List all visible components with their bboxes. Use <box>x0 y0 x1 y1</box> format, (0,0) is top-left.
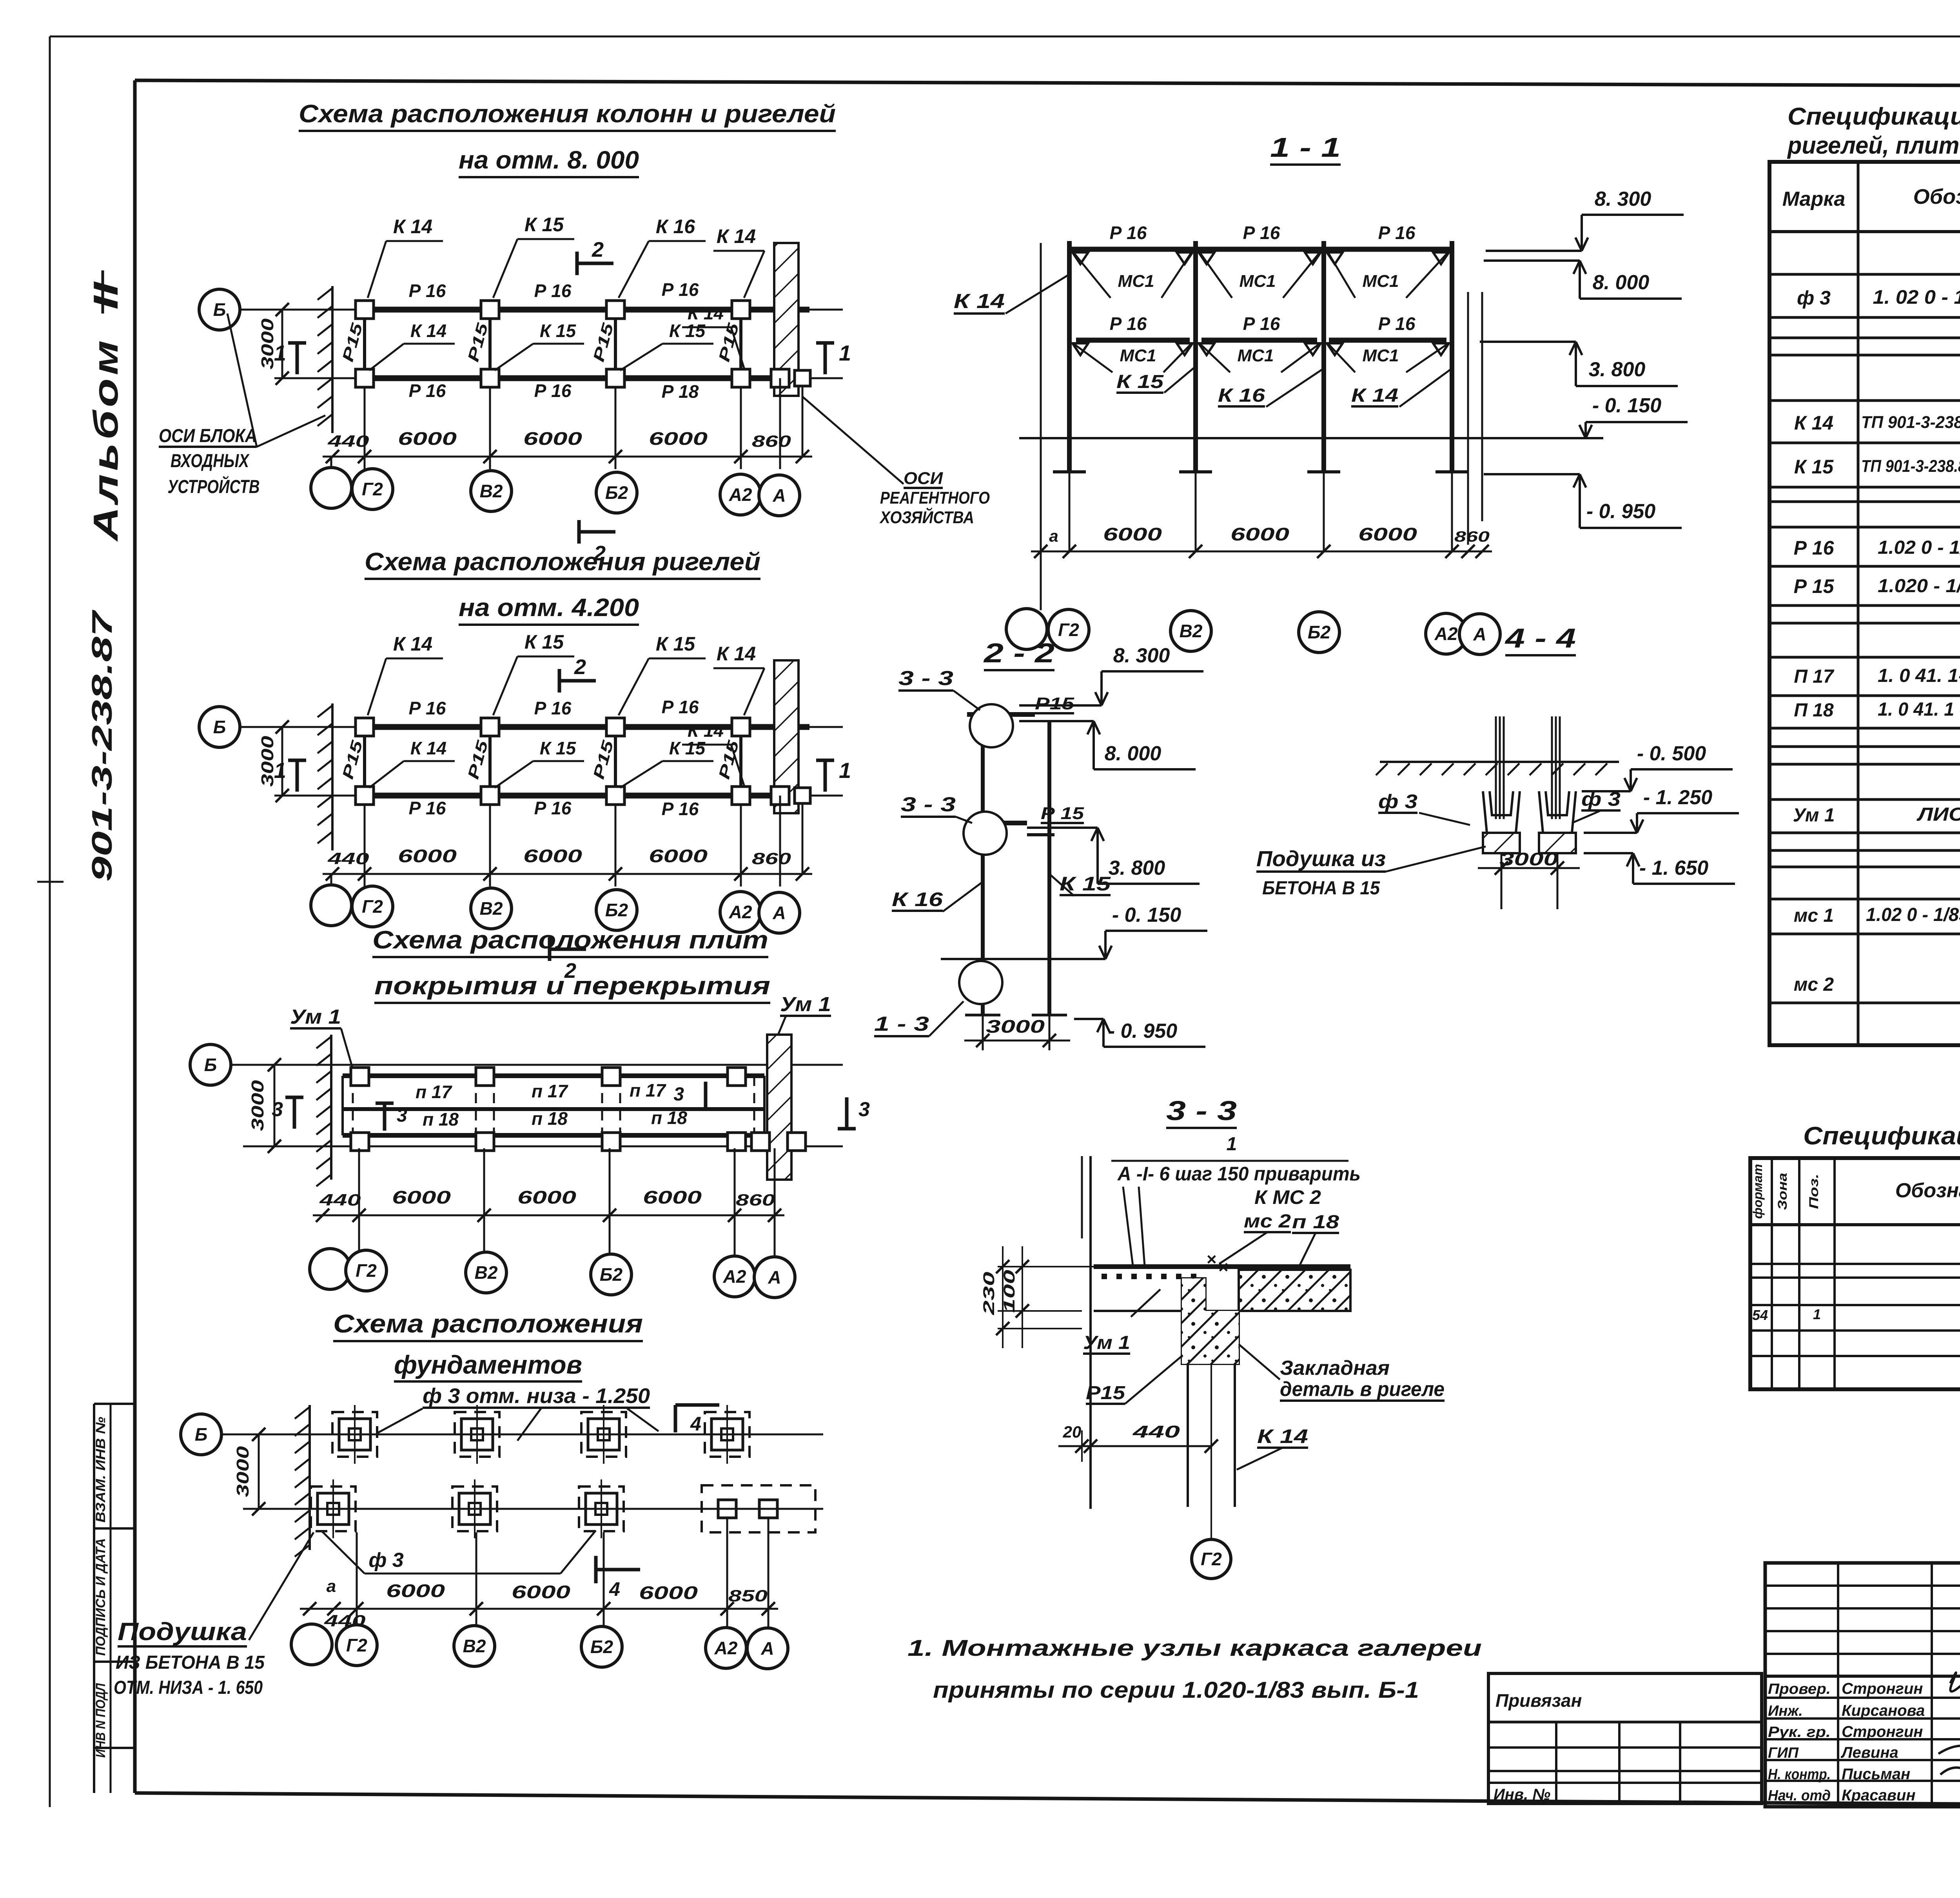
svg-text:Схема расположения ригелей: Схема расположения ригелей <box>365 547 760 576</box>
svg-text:А2: А2 <box>729 484 752 505</box>
svg-text:ф 3 отм. низа - 1.250: ф 3 отм. низа - 1.250 <box>423 1384 650 1408</box>
svg-text:МС1: МС1 <box>1363 272 1399 291</box>
axis circles bottom <box>330 457 332 469</box>
svg-text:Кирсанова: Кирсанова <box>1842 1702 1925 1719</box>
column squares and verticals <box>363 319 366 369</box>
right wall hatched scheme3 <box>767 1035 791 1180</box>
svg-text:Подушка из: Подушка из <box>1256 846 1386 871</box>
svg-text:1: 1 <box>839 758 851 783</box>
svg-text:1. 02 0 - 1/83 . 1-1 1.00.: 1. 02 0 - 1/83 . 1-1 1.00. <box>1873 286 1960 308</box>
girders R16 top row <box>374 307 480 313</box>
svg-text:УСТРОЙСТВ: УСТРОЙСТВ <box>168 476 260 497</box>
svg-text:- 0. 950: - 0. 950 <box>1108 1020 1177 1042</box>
svg-text:Р 16: Р 16 <box>1378 223 1416 243</box>
svg-text:Р15: Р15 <box>1086 1383 1126 1403</box>
svg-text:6000: 6000 <box>517 1187 577 1207</box>
svg-text:Р 16: Р 16 <box>534 281 572 301</box>
dim line scheme3 <box>313 1215 784 1216</box>
svg-text:ригелей, плит покрытия и: ригелей, плит покрытия и перекрытия, фун… <box>1787 132 1960 159</box>
svg-text:Спецификация к схемам: Спецификация к схемам расположения колон… <box>1788 103 1960 130</box>
svg-text:1.02 0 - 1/83 вып. 7- 1: 1.02 0 - 1/83 вып. 7- 1 <box>1866 905 1960 925</box>
hatched slab P18 <box>1239 1270 1350 1311</box>
fold mark left <box>37 881 64 883</box>
svg-text:ТП 901-3-238.87-КЖИ.05.0. 0. 0: ТП 901-3-238.87-КЖИ.05.0. 0. 0 <box>1861 413 1960 432</box>
column hatched 3-3 <box>1182 1278 1239 1364</box>
svg-text:6000: 6000 <box>1103 524 1162 544</box>
foundation glasses 4-4 <box>1483 791 1520 833</box>
svg-text:приняты по серии 1.020-1/83: приняты по серии 1.020-1/83 вып. Б-1 <box>933 1677 1419 1703</box>
signatures <box>1950 1673 1960 1762</box>
svg-text:1.02 0 - 1/83 3-1 17- 01: 1.02 0 - 1/83 3-1 17- 01 <box>1878 537 1960 558</box>
svg-text:а: а <box>1049 527 1058 545</box>
verticals to circles scheme3 <box>358 1148 360 1252</box>
svg-text:МС1: МС1 <box>1238 346 1274 365</box>
svg-text:Р 16: Р 16 <box>409 281 446 301</box>
svg-text:1 - 1: 1 - 1 <box>1270 132 1341 163</box>
personnel rows <box>1765 1697 1960 1699</box>
svg-text:Схема расположения: Схема расположения <box>333 1309 643 1338</box>
slab outline <box>343 1073 764 1078</box>
svg-text:Р 15: Р 15 <box>1041 804 1084 823</box>
svg-text:Ум 1: Ум 1 <box>1793 805 1835 826</box>
svg-text:54: 54 <box>1752 1307 1768 1323</box>
G2 circle 3-3 <box>1210 1538 1212 1540</box>
svg-text:К 14: К 14 <box>393 633 432 655</box>
svg-text:Б2: Б2 <box>605 482 628 503</box>
svg-text:В2: В2 <box>480 481 503 501</box>
svg-text:4: 4 <box>690 1413 701 1435</box>
svg-text:Б: Б <box>204 1055 217 1075</box>
svg-text:п 17: п 17 <box>532 1081 568 1101</box>
svg-text:4: 4 <box>609 1578 620 1600</box>
svg-text:В2: В2 <box>1180 621 1203 641</box>
slab squares top <box>351 1068 369 1086</box>
svg-text:Р 16: Р 16 <box>662 799 699 819</box>
svg-text:ГИП: ГИП <box>1768 1745 1799 1761</box>
svg-text:3. 800: 3. 800 <box>1589 358 1646 381</box>
svg-text:ф 3: ф 3 <box>1378 790 1417 812</box>
svg-text:3: 3 <box>858 1098 870 1121</box>
svg-text:- 1. 250: - 1. 250 <box>1643 786 1712 809</box>
svg-text:К 14: К 14 <box>410 321 446 341</box>
svg-text:2 - 2: 2 - 2 <box>983 638 1054 668</box>
svg-text:Ум 1: Ум 1 <box>290 1006 341 1028</box>
svg-text:Схема расположения колонн: Схема расположения колонн и ригелей <box>299 100 836 128</box>
svg-text:Р 18: Р 18 <box>662 381 699 402</box>
svg-text:850: 850 <box>728 1586 768 1605</box>
right wall column hatched <box>774 243 799 396</box>
svg-text:Красавин: Красавин <box>1842 1787 1916 1804</box>
svg-text:3 - 3: 3 - 3 <box>1166 1095 1237 1126</box>
svg-text:6000: 6000 <box>386 1581 445 1601</box>
svg-text:А: А <box>772 485 786 506</box>
svg-text:Стронгин: Стронгин <box>1842 1723 1923 1740</box>
svg-text:А2: А2 <box>723 1266 746 1287</box>
svg-text:Марка: Марка <box>1782 188 1846 210</box>
dims 230 100 <box>998 1266 1094 1267</box>
slab band 3-3 <box>1094 1264 1350 1269</box>
svg-text:Инв. №: Инв. № <box>1494 1786 1550 1803</box>
svg-text:А: А <box>772 903 786 923</box>
svg-text:6000: 6000 <box>392 1187 451 1207</box>
beam stubs 2-2 <box>967 712 1035 717</box>
svg-text:Р 16: Р 16 <box>1378 314 1416 334</box>
svg-text:Р15: Р15 <box>1035 694 1074 713</box>
svg-text:100: 100 <box>1001 1270 1018 1313</box>
svg-text:К 14: К 14 <box>393 216 432 237</box>
svg-text:8. 300: 8. 300 <box>1595 188 1651 210</box>
svg-text:2: 2 <box>592 238 604 261</box>
svg-text:ОСИ БЛОКА: ОСИ БЛОКА <box>159 426 257 446</box>
svg-text:860: 860 <box>752 849 791 868</box>
column squares and verticals <box>363 736 366 787</box>
svg-text:Подушка: Подушка <box>118 1617 247 1646</box>
svg-text:К 15: К 15 <box>540 321 577 341</box>
svg-text:Б: Б <box>213 299 226 320</box>
svg-text:Р 16: Р 16 <box>1243 314 1280 334</box>
svg-text:В2: В2 <box>475 1262 498 1283</box>
rebar dots <box>1102 1274 1107 1279</box>
axis line bottom <box>243 1146 843 1148</box>
vertical dim 3000 <box>281 310 283 378</box>
svg-text:МС1: МС1 <box>1240 272 1276 291</box>
wall axis hatched <box>331 286 334 433</box>
left margin stamp strip <box>94 1403 135 1405</box>
axis line second row <box>274 377 843 379</box>
svg-text:А: А <box>768 1267 781 1287</box>
wall hatched left <box>330 1035 332 1180</box>
axis circles bottom <box>330 874 332 886</box>
svg-text:ИЗ БЕТОНА В 15: ИЗ БЕТОНА В 15 <box>116 1652 265 1673</box>
axis line B row <box>238 309 843 311</box>
dimension line <box>323 873 812 875</box>
svg-text:К 15: К 15 <box>1794 456 1834 478</box>
svg-text:А: А <box>1473 624 1486 644</box>
svg-text:Р 16: Р 16 <box>534 381 572 401</box>
section mark 2 bottom <box>550 948 586 951</box>
svg-text:1: 1 <box>1227 1134 1237 1155</box>
svg-text:Н. контр.: Н. контр. <box>1768 1766 1831 1783</box>
svg-text:А2: А2 <box>1434 624 1458 644</box>
section mark 2 bottom <box>579 530 615 534</box>
3000 dim 4-4 <box>1478 867 1580 869</box>
detail circles 2-2 <box>970 704 1013 747</box>
svg-text:860: 860 <box>1454 529 1490 545</box>
svg-text:×: × <box>1206 1250 1216 1269</box>
svg-text:формат: формат <box>1751 1164 1765 1219</box>
axis B line scheme4 <box>220 1434 823 1436</box>
svg-text:3000: 3000 <box>233 1446 252 1497</box>
svg-text:п 17: п 17 <box>416 1082 452 1102</box>
axis line B row <box>238 726 843 728</box>
vertical dim 3000 <box>281 727 283 796</box>
binding stamp block <box>1488 1673 1762 1804</box>
svg-text:8. 300: 8. 300 <box>1113 644 1170 667</box>
svg-text:3 - 3: 3 - 3 <box>898 667 953 690</box>
verticals to circles scheme4 <box>356 1532 358 1629</box>
svg-text:Нач. отд: Нач. отд <box>1768 1787 1831 1804</box>
svg-text:1. Монтажные узлы каркаса г: 1. Монтажные узлы каркаса галереи <box>907 1635 1482 1661</box>
svg-text:1: 1 <box>1813 1306 1821 1322</box>
top dim line 3-3 <box>1111 1160 1348 1162</box>
svg-text:фундаментов: фундаментов <box>394 1350 582 1379</box>
svg-text:Р 16: Р 16 <box>409 698 446 718</box>
svg-text:Г2: Г2 <box>346 1635 367 1655</box>
dim line 1-1 <box>1031 551 1492 553</box>
svg-text:6000: 6000 <box>1230 524 1290 544</box>
svg-text:Г2: Г2 <box>1201 1549 1222 1569</box>
svg-text:К 15: К 15 <box>540 738 577 758</box>
double foundation right <box>702 1485 815 1532</box>
svg-text:Г2: Г2 <box>362 896 383 917</box>
floor line 2-2 <box>941 958 1078 960</box>
svg-text:п 18: п 18 <box>532 1108 568 1129</box>
svg-text:Р 16: Р 16 <box>662 697 699 717</box>
section mark 1 left <box>296 760 299 792</box>
svg-text:РЕАГЕНТНОГО: РЕАГЕНТНОГО <box>880 488 990 508</box>
axis circle B <box>199 289 240 330</box>
svg-text:901-3-238.87: 901-3-238.87 <box>87 609 118 882</box>
section mark 1 right <box>824 760 827 792</box>
girders R16 top row <box>374 724 480 730</box>
svg-text:МС1: МС1 <box>1363 346 1399 365</box>
svg-text:ТП 901-3-238.87-КЖИ.05.0.0.0 -: ТП 901-3-238.87-КЖИ.05.0.0.0 - 01 <box>1861 457 1960 476</box>
svg-text:Б2: Б2 <box>1308 622 1331 642</box>
svg-text:Рук. гр.: Рук. гр. <box>1768 1724 1831 1740</box>
section 4 marks <box>674 1405 677 1432</box>
svg-text:6000: 6000 <box>523 846 583 866</box>
section mark 2 top <box>577 262 613 265</box>
svg-text:П 17: П 17 <box>1794 666 1835 687</box>
svg-text:6000: 6000 <box>398 846 457 866</box>
svg-text:20: 20 <box>1063 1423 1082 1441</box>
svg-text:II: II <box>86 281 125 310</box>
axis circles scheme3 <box>310 1249 350 1289</box>
svg-text:3000: 3000 <box>248 1080 267 1131</box>
svg-text:8. 000: 8. 000 <box>1105 742 1161 765</box>
wall hatch scheme4 <box>309 1405 311 1550</box>
svg-text:мс 2: мс 2 <box>1244 1211 1291 1232</box>
svg-text:МС1: МС1 <box>1120 346 1156 365</box>
columns 2-2 <box>981 714 985 1015</box>
column below 3-3 <box>1187 1364 1189 1507</box>
svg-text:К 16: К 16 <box>892 888 944 910</box>
svg-text:К 14: К 14 <box>410 738 446 758</box>
svg-text:Схема расположения плит: Схема расположения плит <box>372 926 768 954</box>
svg-text:- 0. 150: - 0. 150 <box>1112 904 1181 926</box>
vertical dim 3000 scheme3 <box>274 1065 276 1146</box>
girders bottom row <box>374 375 480 381</box>
svg-text:3: 3 <box>272 1098 283 1121</box>
svg-text:П 18: П 18 <box>1794 700 1834 721</box>
svg-text:ПОДПИСЬ И ДАТА: ПОДПИСЬ И ДАТА <box>93 1538 108 1656</box>
inner drawing frame <box>135 80 1960 87</box>
svg-text:мс 2: мс 2 <box>1794 974 1834 995</box>
svg-text:1: 1 <box>274 758 286 783</box>
svg-text:деталь в ригеле: деталь в ригеле <box>1280 1378 1445 1401</box>
svg-text:К 14: К 14 <box>717 225 756 247</box>
svg-text:6000: 6000 <box>1358 524 1417 544</box>
title block outer <box>1765 1563 1960 1807</box>
svg-text:а: а <box>327 1577 336 1596</box>
svg-text:Ум 1: Ум 1 <box>1083 1332 1130 1353</box>
svg-text:1: 1 <box>839 341 851 365</box>
svg-text:Р 16: Р 16 <box>409 798 446 818</box>
svg-text:6000: 6000 <box>649 428 708 449</box>
svg-text:6000: 6000 <box>643 1187 702 1207</box>
svg-text:А: А <box>760 1638 774 1659</box>
svg-text:Б2: Б2 <box>605 900 628 920</box>
svg-text:440: 440 <box>319 1191 361 1209</box>
svg-text:2: 2 <box>574 655 586 679</box>
svg-text:230: 230 <box>980 1272 998 1316</box>
slab internal column dashes <box>475 1076 477 1135</box>
svg-text:на отм. 8. 000: на отм. 8. 000 <box>459 146 639 174</box>
columns 1-1 <box>1067 241 1072 472</box>
svg-text:1. 0 41. 1-2: 1. 0 41. 1-2 <box>1878 665 1960 686</box>
svg-text:К 15: К 15 <box>524 631 564 653</box>
svg-text:860: 860 <box>736 1191 775 1209</box>
svg-text:3: 3 <box>673 1084 684 1105</box>
svg-text:Привязан: Привязан <box>1495 1690 1582 1711</box>
right wall lines <box>1467 292 1469 545</box>
svg-text:ОСИ: ОСИ <box>904 469 943 488</box>
svg-text:Р 16: Р 16 <box>409 381 446 401</box>
spec table 2 grid <box>1750 1158 1960 1389</box>
svg-text:К 14: К 14 <box>954 290 1005 313</box>
ground line 1-1 <box>1019 437 1603 439</box>
axis line B <box>229 1064 843 1066</box>
axis circles scheme4 <box>291 1624 332 1665</box>
svg-text:Б: Б <box>213 717 226 737</box>
svg-text:Закладная: Закладная <box>1280 1357 1390 1380</box>
svg-text:3. 800: 3. 800 <box>1109 857 1165 879</box>
svg-text:ф 3: ф 3 <box>368 1549 403 1572</box>
svg-text:К 14: К 14 <box>1794 412 1833 434</box>
svg-text:3 - 3: 3 - 3 <box>901 793 956 816</box>
vertical dim 3000 scheme4 <box>258 1434 260 1509</box>
svg-text:К 14: К 14 <box>1351 385 1398 406</box>
title block upper rows <box>1765 1584 1960 1587</box>
svg-text:- 0. 500: - 0. 500 <box>1637 742 1706 765</box>
svg-text:ВЗАМ. ИНВ №: ВЗАМ. ИНВ № <box>93 1417 108 1523</box>
svg-text:Р 16: Р 16 <box>662 279 699 300</box>
svg-text:440: 440 <box>1132 1422 1180 1441</box>
svg-text:п 18: п 18 <box>651 1108 687 1128</box>
svg-text:Р 15: Р 15 <box>1794 575 1835 597</box>
svg-text:Р 16: Р 16 <box>1794 537 1835 559</box>
svg-text:А2: А2 <box>729 902 752 922</box>
svg-text:Р 16: Р 16 <box>1110 223 1147 243</box>
svg-text:Г2: Г2 <box>1058 620 1079 640</box>
svg-text:6000: 6000 <box>523 428 583 449</box>
dim line scheme4 <box>300 1608 778 1610</box>
section mark 2 top <box>559 679 596 683</box>
svg-text:ф 3: ф 3 <box>1797 287 1831 309</box>
svg-text:п 18: п 18 <box>1292 1212 1339 1233</box>
svg-text:Г2: Г2 <box>356 1260 377 1281</box>
page outer border <box>50 36 1960 38</box>
svg-text:п 17: п 17 <box>630 1080 666 1100</box>
beams level 1 <box>1069 247 1452 252</box>
svg-text:1.020 - 1/83 3-1 14- 01: 1.020 - 1/83 3-1 14- 01 <box>1878 576 1960 596</box>
svg-text:К МС 2: К МС 2 <box>1254 1186 1321 1208</box>
axis circles 1-1 <box>1006 609 1047 649</box>
svg-text:- 1. 650: - 1. 650 <box>1639 857 1708 879</box>
svg-text:Спецификация элементов монол: Спецификация элементов монолитных участк… <box>1803 1122 1960 1150</box>
svg-text:6000: 6000 <box>649 846 708 866</box>
svg-text:1: 1 <box>274 341 286 365</box>
svg-text:на отм. 4.200: на отм. 4.200 <box>459 593 639 622</box>
svg-text:Р 16: Р 16 <box>1110 314 1147 334</box>
svg-text:Обозначение: Обозначение <box>1913 185 1960 208</box>
svg-text:ХОЗЯЙСТВА: ХОЗЯЙСТВА <box>879 507 974 527</box>
svg-text:Б: Б <box>195 1424 208 1445</box>
svg-text:860: 860 <box>752 432 791 450</box>
svg-text:4 - 4: 4 - 4 <box>1504 623 1576 653</box>
svg-text:8. 000: 8. 000 <box>1593 271 1650 294</box>
svg-text:В2: В2 <box>480 898 503 919</box>
foundations row 1 <box>332 1412 377 1457</box>
svg-text:К 15: К 15 <box>1116 372 1164 392</box>
svg-text:Обозначение: Обозначение <box>1895 1179 1960 1202</box>
svg-text:440: 440 <box>327 849 369 868</box>
svg-text:К 14: К 14 <box>717 643 756 665</box>
svg-text:3000: 3000 <box>1499 849 1559 869</box>
svg-text:А2: А2 <box>714 1638 738 1658</box>
svg-text:МС1: МС1 <box>1118 272 1154 291</box>
svg-text:Поз.: Поз. <box>1807 1174 1821 1209</box>
wall axis hatched <box>331 703 334 850</box>
svg-text:3000: 3000 <box>986 1016 1045 1037</box>
axis second row scheme4 <box>243 1508 823 1510</box>
axis line second row <box>274 795 843 797</box>
svg-text:6000: 6000 <box>398 428 457 449</box>
svg-text:- 0. 150: - 0. 150 <box>1592 394 1661 417</box>
girders bottom row <box>374 793 480 799</box>
svg-text:Провер.: Провер. <box>1768 1681 1831 1697</box>
svg-text:Р 16: Р 16 <box>534 798 572 818</box>
dimension line <box>323 456 812 458</box>
svg-text:6000: 6000 <box>639 1583 698 1603</box>
svg-text:Письман: Письман <box>1842 1766 1910 1783</box>
svg-text:440: 440 <box>327 432 369 450</box>
svg-text:К 14: К 14 <box>688 720 724 741</box>
svg-text:покрытия и перекрытия: покрытия и перекрытия <box>374 972 770 1000</box>
svg-text:Ум 1: Ум 1 <box>780 993 831 1016</box>
foundations row 2 <box>311 1486 356 1531</box>
svg-text:Б2: Б2 <box>600 1264 623 1285</box>
svg-text:- 0. 950: - 0. 950 <box>1586 500 1655 523</box>
svg-text:К 14: К 14 <box>1257 1425 1308 1447</box>
svg-text:ЛИСТ КЖ 55: ЛИСТ КЖ 55 <box>1916 804 1960 825</box>
svg-text:1. 0 41. 1 -2: 1. 0 41. 1 -2 <box>1878 699 1960 720</box>
column bars 4-4 <box>1495 716 1497 819</box>
svg-text:Р 16: Р 16 <box>534 698 572 718</box>
svg-text:В2: В2 <box>463 1636 486 1656</box>
axis circle B <box>199 707 240 747</box>
svg-text:ВХОДНЫХ: ВХОДНЫХ <box>171 451 250 471</box>
svg-text:ОТМ. НИЗА - 1. 650: ОТМ. НИЗА - 1. 650 <box>114 1677 263 1698</box>
svg-text:К 15: К 15 <box>524 214 564 236</box>
title block verticals <box>1837 1563 1839 1807</box>
3000 dim 2-2 <box>964 1040 1070 1042</box>
svg-text:Левина: Левина <box>1840 1744 1898 1761</box>
wall axis line left <box>1040 243 1042 610</box>
ground line 4-4 <box>1380 761 1619 763</box>
svg-text:К 14: К 14 <box>688 303 724 323</box>
svg-text:Б2: Б2 <box>590 1637 613 1657</box>
